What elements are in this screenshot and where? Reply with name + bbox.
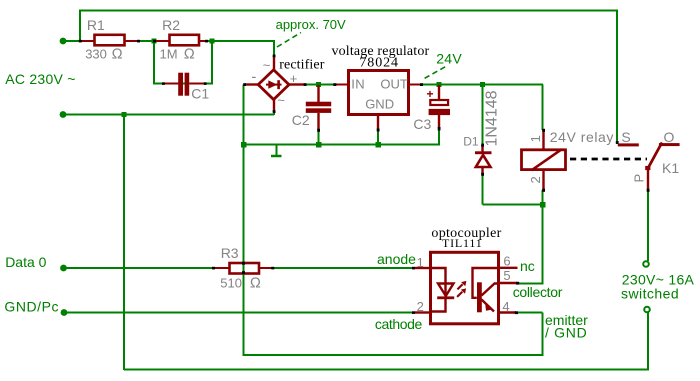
svg-text:nc: nc (520, 258, 535, 274)
svg-text:2: 2 (528, 176, 543, 183)
svg-text:1M: 1M (160, 47, 178, 62)
svg-text:4: 4 (502, 299, 509, 314)
svg-text:Data 0: Data 0 (5, 254, 46, 270)
svg-text:1: 1 (417, 255, 424, 270)
svg-text:Ω: Ω (184, 47, 195, 63)
svg-text:1: 1 (528, 135, 543, 142)
svg-text:R1: R1 (87, 17, 105, 33)
svg-text:C2: C2 (292, 112, 310, 128)
svg-text:Ω: Ω (112, 47, 123, 63)
svg-text:C1: C1 (191, 86, 209, 102)
svg-text:cathode: cathode (375, 316, 423, 332)
svg-text:2: 2 (417, 299, 424, 314)
svg-text:24V: 24V (436, 51, 462, 67)
svg-text:+: + (427, 87, 434, 101)
svg-text:S: S (621, 129, 630, 145)
svg-text:approx. 70V: approx. 70V (276, 17, 346, 32)
svg-text:C3: C3 (413, 116, 431, 132)
svg-text:rectifier: rectifier (279, 58, 324, 73)
svg-text:~: ~ (263, 58, 271, 73)
svg-text:anode: anode (377, 251, 416, 267)
svg-text:TIL111: TIL111 (442, 236, 483, 250)
svg-text:+: + (290, 71, 298, 86)
svg-text:collector: collector (513, 284, 563, 300)
svg-text:GND/Pc: GND/Pc (4, 299, 59, 315)
svg-text:330: 330 (85, 47, 107, 62)
svg-text:-: - (251, 69, 256, 86)
svg-text:D1: D1 (463, 135, 479, 149)
svg-text:/ GND: / GND (545, 325, 587, 341)
svg-text:AC 230V ~: AC 230V ~ (5, 71, 75, 87)
svg-text:510: 510 (220, 275, 242, 290)
svg-text:Ω: Ω (250, 275, 261, 291)
svg-text:78024: 78024 (359, 56, 399, 71)
svg-text:IN: IN (351, 76, 365, 91)
svg-text:GND: GND (365, 96, 394, 111)
svg-text:R2: R2 (162, 17, 180, 33)
svg-text:5: 5 (503, 268, 510, 283)
svg-text:24V relay: 24V relay (550, 129, 614, 145)
svg-text:P: P (632, 174, 647, 183)
svg-text:R3: R3 (221, 245, 239, 261)
svg-text:K1: K1 (662, 160, 679, 176)
svg-text:6: 6 (503, 254, 510, 269)
svg-text:switched: switched (621, 286, 679, 302)
svg-text:1N4148: 1N4148 (484, 90, 501, 146)
svg-text:OUT: OUT (380, 76, 408, 91)
svg-text:O: O (664, 129, 675, 145)
svg-text:~: ~ (277, 92, 285, 107)
